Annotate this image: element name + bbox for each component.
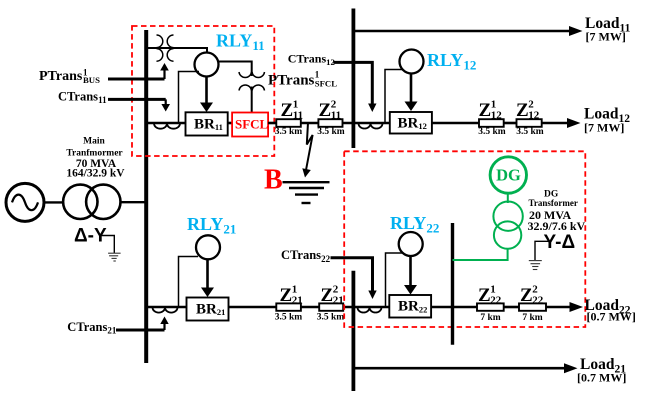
svg-text:[0.7 MW]: [0.7 MW]: [587, 310, 636, 324]
svg-text:CTrans22: CTrans22: [281, 248, 331, 264]
trip arrow RLY12 to BR12: [405, 74, 418, 112]
ground (main transformer neutral): [108, 253, 121, 261]
svg-text:3.5 km: 3.5 km: [317, 127, 345, 137]
relay RLY11: [195, 53, 219, 77]
wire CT11 to relay RLY11: [179, 72, 200, 124]
svg-text:Z: Z: [281, 100, 294, 121]
svg-text:Y-Δ: Y-Δ: [544, 232, 576, 253]
wire BR11 to SFCL: [228, 122, 232, 125]
wire wye neutral to ground (main transformer): [100, 236, 114, 254]
svg-text:164/32.9 kV: 164/32.9 kV: [66, 168, 125, 180]
breaker BR12: [390, 112, 432, 134]
label Z22_1: [478, 284, 502, 307]
ground (fault B): [283, 182, 330, 203]
resistor Z12_1: [479, 119, 504, 127]
svg-text:11: 11: [331, 110, 341, 122]
wire CT21 to relay RLY21: [179, 257, 199, 308]
svg-text:BUS: BUS: [83, 75, 100, 85]
wire main bus to relay RLY11: [146, 48, 207, 54]
svg-text:Z: Z: [520, 285, 533, 306]
DG transformer: [493, 202, 522, 249]
svg-text:12: 12: [528, 110, 540, 122]
bus 1: [351, 9, 355, 149]
wire generator to main transformer: [44, 201, 64, 203]
svg-text:3.5 km: 3.5 km: [275, 313, 303, 323]
wire Z11_1 to Z11_2 (fault tap node): [301, 122, 319, 125]
relay RLY21: [196, 235, 220, 259]
PT symbol PTrans1BUS on bus tap: [157, 35, 174, 61]
resistor Z21_1: [276, 303, 301, 310]
label Z11_2: [319, 99, 342, 122]
wire BR22 to Z22_1 across DG bus: [431, 306, 477, 309]
CT symbol CT12: [359, 124, 383, 129]
CT symbol CT22: [358, 308, 382, 313]
wire main transformer to main bus: [120, 201, 148, 203]
svg-text:3.5 km: 3.5 km: [478, 127, 506, 137]
label DG transformer: [528, 190, 586, 234]
resistor Z21_2: [319, 303, 343, 310]
svg-text:PTrans: PTrans: [39, 69, 83, 84]
label Z21_2: [321, 284, 344, 307]
svg-text:CTrans11: CTrans11: [58, 89, 107, 105]
svg-text:CTrans12: CTrans12: [288, 52, 335, 68]
label main transformer: [66, 137, 125, 180]
wire feeder2: main bus to BR21: [146, 306, 187, 309]
label Z22_2: [520, 284, 544, 307]
resistor Z12_2: [517, 119, 542, 127]
svg-text:[7 MW]: [7 MW]: [584, 121, 624, 135]
label PTrans1SFCL: [268, 69, 337, 88]
svg-text:Z: Z: [478, 285, 491, 306]
wire Z11_2 to BR12 across bus1: [343, 122, 390, 125]
wire CTrans22 label to CT22: [331, 258, 377, 299]
label PTrans1BUS: [39, 67, 100, 85]
label Z12_2: [516, 99, 540, 122]
svg-text:21: 21: [292, 295, 303, 307]
label Load11: [585, 15, 631, 44]
svg-text:3.5 km: 3.5 km: [516, 127, 544, 137]
svg-text:1: 1: [491, 99, 497, 111]
svg-text:Main: Main: [83, 137, 105, 147]
label Load12: [584, 106, 630, 135]
svg-text:SFCL: SFCL: [315, 79, 337, 89]
wire DG transformer to DG bus: [453, 249, 508, 261]
wire SFCL to Z11_1: [268, 122, 276, 125]
svg-text:22: 22: [490, 295, 502, 307]
resistor Z11_2: [318, 119, 342, 127]
trip arrow RLY21 to BR21: [201, 260, 214, 297]
wire CTrans11 label to CT11: [108, 99, 170, 111]
wire CTrans21 label to CT21: [116, 317, 169, 331]
svg-text:SFCL: SFCL: [235, 116, 269, 131]
load feeder Load12: [542, 118, 581, 128]
svg-text:RLY22: RLY22: [390, 213, 439, 236]
svg-text:2: 2: [333, 284, 339, 296]
resistor Z22_2: [519, 303, 546, 310]
svg-text:[7 MW]: [7 MW]: [586, 30, 626, 44]
generator G: [6, 183, 44, 221]
svg-text:Z: Z: [319, 100, 332, 121]
svg-text:DG: DG: [496, 166, 521, 185]
svg-text:7 km: 7 km: [480, 313, 500, 323]
svg-text:RLY12: RLY12: [427, 50, 476, 73]
bus 2: [351, 271, 355, 391]
breaker BR22: [389, 295, 431, 318]
svg-text:1: 1: [292, 284, 298, 296]
wire DG to DG transformer: [507, 193, 509, 203]
wire Z21_1 to Z21_2: [301, 306, 319, 309]
svg-text:21: 21: [333, 295, 344, 307]
svg-text:3.5 km: 3.5 km: [275, 127, 303, 137]
trip arrow RLY11 to BR11: [200, 77, 213, 113]
wire Z22_1 to Z22_2: [504, 306, 519, 309]
wire wye neutral to ground (DG transformer): [535, 241, 550, 260]
label Z21_1: [280, 284, 303, 307]
svg-text:12: 12: [491, 110, 503, 122]
relay RLY22: [399, 232, 423, 256]
svg-text:2: 2: [528, 99, 534, 111]
wire PTrans1BUS label to PT symbol: [108, 63, 169, 79]
svg-text:PTrans: PTrans: [268, 73, 315, 89]
trip arrow RLY22 to BR22: [404, 256, 417, 295]
load feeder Load22: [546, 302, 583, 312]
svg-text:22: 22: [532, 295, 544, 307]
svg-text:RLY11: RLY11: [216, 31, 265, 54]
svg-text:2: 2: [331, 99, 337, 111]
svg-text:Transformer: Transformer: [529, 198, 578, 208]
wire Z12_1 to Z12_2: [504, 122, 517, 125]
ground (DG transformer neutral): [529, 261, 542, 270]
SFCL box: [232, 113, 268, 137]
svg-text:32.9/7.6 kV: 32.9/7.6 kV: [528, 219, 586, 233]
DG bus stub: [451, 223, 454, 345]
svg-text:Z: Z: [479, 100, 492, 121]
breaker BR21: [187, 298, 229, 321]
dashed protection zone RLY11: [132, 26, 274, 156]
svg-text:Z: Z: [516, 100, 529, 121]
label Load21: [577, 356, 626, 385]
label Z11_1: [281, 99, 304, 122]
label CTrans11: [58, 89, 107, 105]
wire BR21 to Z21_1: [229, 306, 277, 309]
svg-text:1: 1: [490, 284, 496, 296]
breaker BR11: [186, 112, 228, 135]
label Load22: [585, 297, 636, 324]
wire relay RLY11 to PTrans1SFCL to SFCL: [218, 62, 252, 113]
main transformer T1: [63, 185, 120, 219]
main bus: [144, 30, 148, 363]
dashed protection zone RLY22 / DG: [344, 151, 585, 327]
svg-text:Z: Z: [280, 285, 293, 306]
wire CT22 to relay RLY22: [386, 253, 404, 307]
wire CT12 to relay RLY12: [385, 70, 403, 124]
svg-text:[0.7 MW]: [0.7 MW]: [577, 371, 626, 385]
svg-text:CTrans21: CTrans21: [67, 320, 117, 336]
DG source: [490, 157, 526, 193]
load feeder Load11: [353, 26, 582, 36]
svg-text:Tranfmormer: Tranfmormer: [66, 149, 123, 159]
svg-text:11: 11: [293, 110, 303, 122]
svg-text:Z: Z: [321, 285, 334, 306]
svg-text:1: 1: [293, 99, 299, 111]
fault branch at node B: [302, 123, 312, 178]
relay RLY12: [400, 50, 424, 74]
svg-text:2: 2: [532, 284, 538, 296]
wire Z21_2 to BR22 across bus2: [343, 306, 389, 309]
label Z12_1: [479, 99, 503, 122]
resistor Z11_1: [276, 119, 301, 127]
svg-text:7 km: 7 km: [522, 313, 542, 323]
PT symbol PTrans1SFCL: [239, 72, 265, 91]
svg-text:3.5 km: 3.5 km: [317, 313, 345, 323]
load feeder Load21: [353, 363, 577, 373]
wire feeder1: main bus to BR11: [146, 122, 186, 125]
wire CTrans12 label to CT12: [334, 62, 377, 112]
svg-text:B: B: [264, 165, 283, 196]
CT symbol CT21: [153, 308, 178, 313]
resistor Z22_1: [477, 303, 504, 310]
CT symbol CT11: [154, 124, 180, 129]
wire BR12 to Z12_1: [432, 122, 479, 125]
svg-text:RLY21: RLY21: [187, 214, 236, 237]
